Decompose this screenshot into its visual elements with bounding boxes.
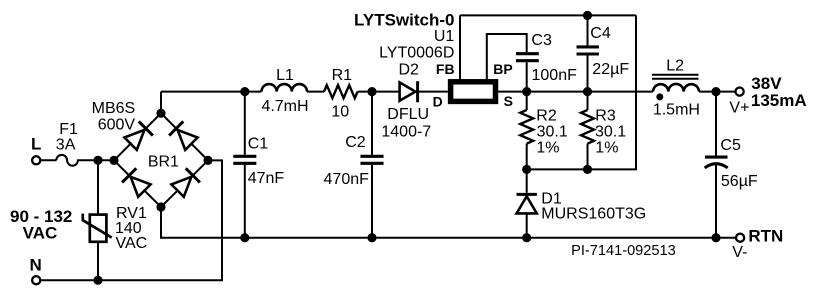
svg-text:MURS160T3G: MURS160T3G (541, 206, 646, 223)
svg-text:3A: 3A (56, 136, 76, 153)
svg-text:D: D (433, 94, 443, 110)
svg-text:470nF: 470nF (324, 171, 370, 188)
svg-text:V+: V+ (729, 99, 749, 116)
svg-text:R2: R2 (536, 107, 557, 124)
svg-text:FB: FB (436, 61, 455, 77)
svg-text:135mA: 135mA (751, 91, 807, 110)
svg-text:S: S (504, 93, 513, 109)
svg-text:C3: C3 (531, 32, 552, 49)
svg-text:47nF: 47nF (248, 170, 285, 187)
svg-text:N: N (30, 255, 42, 274)
svg-text:BR1: BR1 (148, 153, 179, 170)
svg-text:30.1: 30.1 (537, 123, 568, 140)
svg-text:C2: C2 (345, 134, 366, 151)
svg-text:C5: C5 (720, 137, 741, 154)
svg-text:MB6S: MB6S (92, 100, 136, 117)
svg-text:R3: R3 (595, 107, 616, 124)
svg-text:LYT0006D: LYT0006D (379, 45, 454, 62)
svg-text:D2: D2 (398, 61, 419, 78)
svg-text:V-: V- (732, 244, 747, 261)
svg-text:L: L (31, 135, 41, 154)
svg-text:LYTSwitch-0: LYTSwitch-0 (354, 10, 454, 29)
svg-text:30.1: 30.1 (595, 123, 626, 140)
svg-text:22µF: 22µF (592, 61, 629, 78)
svg-text:C4: C4 (590, 25, 611, 42)
svg-text:DFLU: DFLU (387, 106, 429, 123)
svg-text:100nF: 100nF (532, 67, 578, 84)
svg-text:VAC: VAC (116, 235, 148, 252)
svg-text:L2: L2 (666, 57, 684, 74)
svg-text:L1: L1 (276, 67, 294, 84)
svg-text:C1: C1 (248, 135, 269, 152)
svg-text:RTN: RTN (748, 227, 783, 246)
svg-text:VAC: VAC (23, 224, 58, 243)
svg-text:600V: 600V (98, 116, 136, 133)
svg-text:1%: 1% (536, 140, 559, 157)
svg-text:PI-7141-092513: PI-7141-092513 (571, 243, 676, 259)
svg-text:4.7mH: 4.7mH (261, 98, 308, 115)
svg-text:1400-7: 1400-7 (381, 124, 431, 141)
svg-text:U1: U1 (434, 28, 455, 45)
svg-text:56µF: 56µF (721, 173, 758, 190)
svg-text:BP: BP (493, 61, 512, 77)
svg-text:1.5mH: 1.5mH (653, 101, 700, 118)
svg-text:1%: 1% (595, 140, 618, 157)
svg-text:R1: R1 (332, 67, 353, 84)
svg-text:10: 10 (331, 103, 349, 120)
